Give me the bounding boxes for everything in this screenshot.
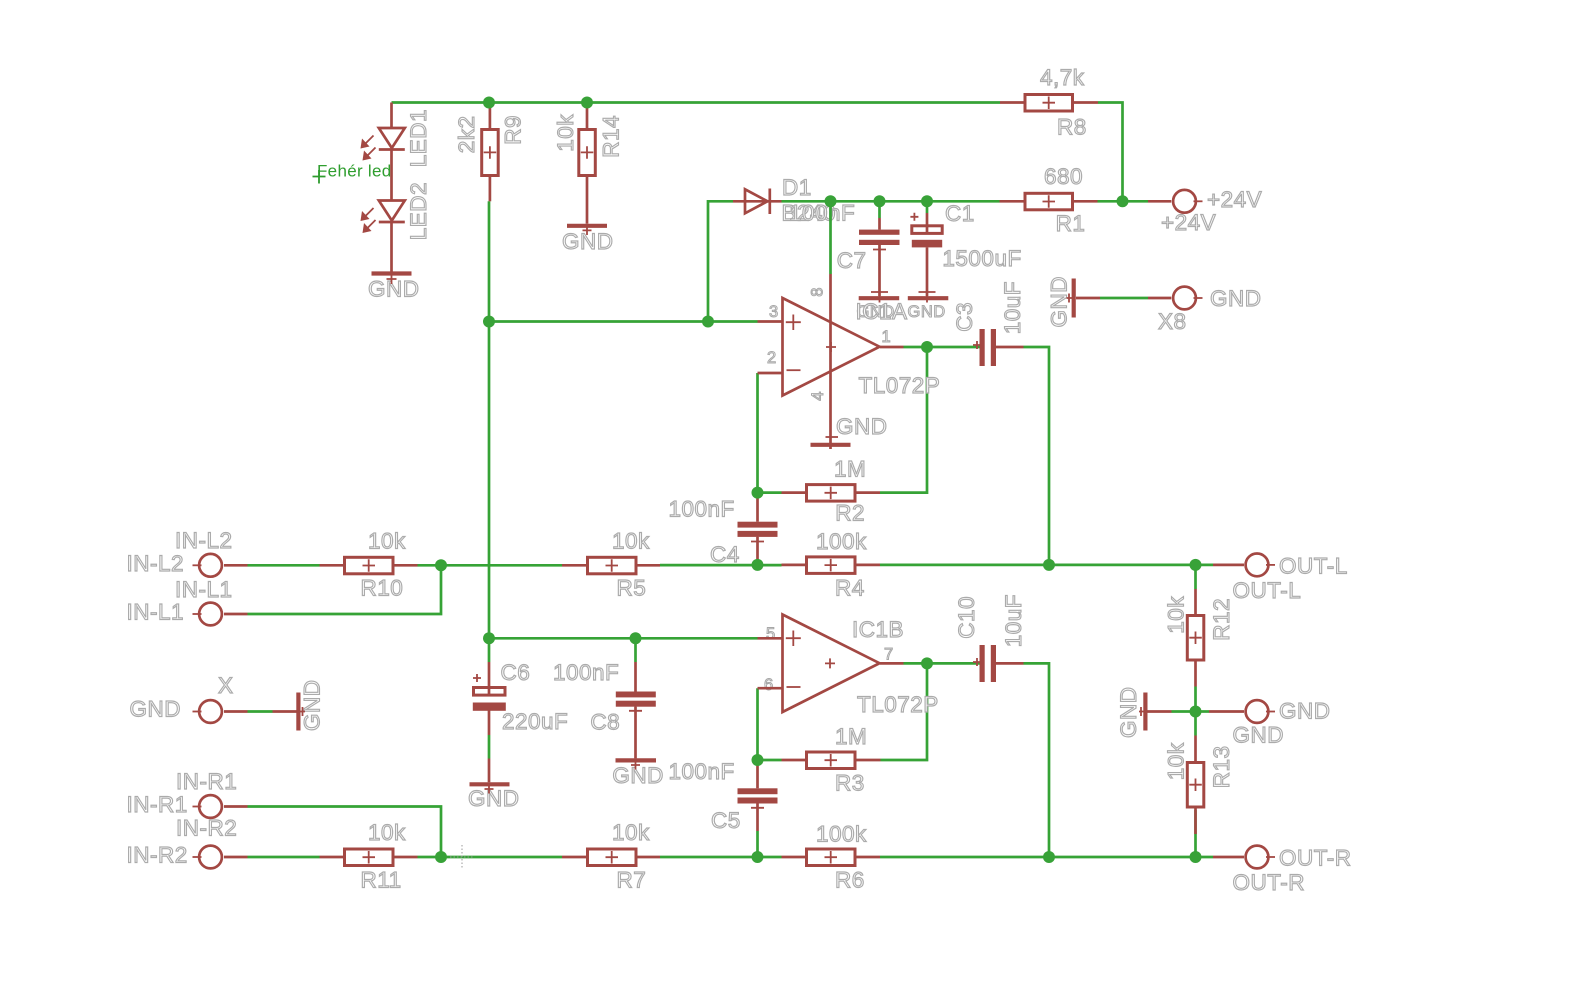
ground under R14 (562, 225, 614, 254)
svg-text:C3: C3 (952, 302, 977, 332)
svg-text:GND: GND (300, 680, 325, 732)
junction output A (921, 341, 933, 353)
wire: R2 left link (758, 491, 782, 494)
svg-text:220uF: 220uF (502, 709, 568, 734)
svg-text:IN-L2: IN-L2 (127, 551, 185, 576)
svg-text:IN-R2: IN-R2 (127, 843, 188, 868)
capacitor C3 10uF output A (952, 281, 1025, 366)
svg-text:C5: C5 (711, 808, 741, 833)
wire: C5 bottom link (756, 831, 759, 857)
resistor R13 10k (1164, 736, 1235, 835)
wire: R1 right to +24V pad (1098, 200, 1149, 203)
wire: L row junction to R5 (441, 564, 562, 567)
svg-text:IN-L1: IN-L1 (175, 577, 233, 602)
svg-text:GND: GND (612, 763, 664, 788)
junction D1 row at pin8 (825, 195, 837, 207)
pad IN-R1 (127, 769, 248, 818)
capacitor C6 220uF (473, 660, 569, 735)
wire: R13 top link (1194, 712, 1197, 736)
wire: R10 right to junction (418, 564, 442, 567)
svg-text:GND: GND (368, 277, 420, 302)
svg-text:IC1A: IC1A (856, 299, 908, 324)
junction R3 left (752, 754, 764, 766)
svg-text:R13: R13 (1209, 746, 1234, 789)
svg-text:LED2: LED2 (406, 182, 431, 240)
svg-text:OUT-R: OUT-R (1233, 870, 1306, 895)
svg-text:GND: GND (1210, 286, 1262, 311)
wire: R13 bottom link (1194, 810, 1197, 857)
wire: R4 right to OUT-L pad (880, 564, 1213, 567)
junction L row at C4 (752, 559, 764, 571)
wire: R row junction to R7 (441, 856, 562, 859)
svg-text:100nF: 100nF (669, 759, 735, 784)
green note Feher led (313, 162, 392, 184)
wire: R12 top link (1194, 565, 1197, 589)
pad OUT-L (1213, 554, 1348, 604)
resistor R10 10k (320, 528, 418, 600)
wire: IN-R2 pad to R11 (248, 856, 320, 859)
wire: R3 right up to output B (881, 663, 928, 760)
pad OUT-R (1213, 846, 1352, 896)
svg-text:1M: 1M (834, 457, 866, 482)
wire: C10 right down to OUT-R row (1024, 663, 1050, 857)
junction output B (921, 657, 933, 669)
wire: op-amp A pin2 feedback drop (756, 373, 759, 493)
wire: IN-L2 pad to R10 (248, 564, 320, 567)
wire: D1 row horizontal (cathode to R1 left) (782, 200, 1000, 203)
wire: R5 right to R4 left (660, 564, 782, 567)
wire: op-amp B pin6 drop (756, 688, 759, 760)
ground under C8 (612, 760, 664, 789)
wire: R8 right to +24V node corner (1098, 103, 1123, 202)
svg-text:6: 6 (764, 676, 773, 694)
svg-text:10uF: 10uF (1000, 281, 1025, 334)
svg-text:1M: 1M (835, 724, 867, 749)
svg-text:10k: 10k (1164, 596, 1189, 634)
svg-text:R6: R6 (835, 867, 865, 892)
svg-text:R10: R10 (361, 575, 404, 600)
svg-text:R9: R9 (501, 115, 526, 145)
wire: IN-R1 pad to junction column (248, 807, 442, 858)
svg-text:100nF: 100nF (789, 201, 855, 226)
wire: X pad to GND symbol (248, 710, 273, 713)
svg-text:R14: R14 (599, 115, 624, 158)
junction pin3 row at D1 drop (702, 316, 714, 328)
junction pin3 row at bias rail (483, 316, 495, 328)
svg-text:R8: R8 (1057, 115, 1087, 140)
wire: right GND row to symbol (1172, 710, 1196, 713)
op-amp IC1B TL072P (758, 615, 939, 718)
wire: R3 left link (758, 759, 782, 762)
svg-text:R1: R1 (1056, 211, 1086, 236)
junction top wire at R9 (483, 97, 495, 109)
svg-text:R4: R4 (835, 575, 865, 600)
svg-text:GND: GND (1279, 699, 1331, 724)
op-amp IC1A TL072P (758, 274, 941, 449)
resistor R3 1M (782, 724, 881, 796)
ground under C1 (908, 286, 949, 321)
resistor R5 10k (562, 528, 660, 600)
svg-text:R5: R5 (617, 575, 647, 600)
svg-text:1500uF: 1500uF (942, 246, 1021, 271)
svg-text:GND: GND (1116, 687, 1141, 739)
junction R row at C5 (752, 851, 764, 863)
svg-text:C10: C10 (954, 596, 979, 639)
ground symbol right divider (1116, 687, 1172, 739)
capacitor C7 100nF (837, 218, 900, 296)
svg-text:10k: 10k (368, 528, 406, 553)
wire: right GND row to pad (1196, 710, 1210, 713)
svg-text:10k: 10k (612, 528, 650, 553)
wire: pin5 bias row (489, 637, 758, 640)
svg-text:OUT-L: OUT-L (1279, 554, 1348, 579)
wire: X8 pad to GND symbol (1100, 297, 1148, 300)
junction right GND row (1190, 706, 1202, 718)
svg-text:10k: 10k (553, 114, 578, 152)
svg-text:3: 3 (769, 303, 778, 321)
wire: op-amp A pin8 supply drop (829, 201, 832, 274)
svg-text:OUT-R: OUT-R (1279, 846, 1352, 871)
resistor R14 10k (553, 103, 624, 224)
svg-text:2: 2 (767, 349, 776, 367)
svg-text:IN-R1: IN-R1 (176, 769, 237, 794)
capacitor C4 100nF (669, 493, 778, 567)
svg-text:R3: R3 (835, 771, 865, 796)
wire: output A to C3 (904, 346, 980, 349)
resistor R9 2k2 (454, 103, 526, 202)
LED1 with emission arrows (361, 103, 432, 201)
svg-text:C7: C7 (837, 248, 867, 273)
pad GND right (1209, 699, 1331, 748)
svg-text:IC1B: IC1B (852, 617, 904, 642)
junction R row at R13 (1190, 851, 1202, 863)
svg-text:X: X (218, 673, 234, 698)
svg-text:LED1: LED1 (406, 109, 431, 167)
svg-text:D1: D1 (782, 175, 812, 200)
pad IN-L1 (127, 577, 248, 625)
junction +24V node (1117, 195, 1129, 207)
wire: R6 right to OUT-R pad (880, 856, 1213, 859)
resistor R1 680 (1000, 164, 1098, 236)
svg-text:GND: GND (836, 414, 888, 439)
wire: R11 right to junction (418, 856, 442, 859)
svg-text:8: 8 (809, 288, 827, 297)
capacitor C8 100nF (553, 660, 656, 758)
svg-text:R2: R2 (835, 501, 865, 526)
capacitor C5 100nF (669, 759, 778, 833)
svg-text:10uF: 10uF (1001, 594, 1026, 647)
svg-text:7: 7 (884, 646, 893, 664)
svg-text:2k2: 2k2 (454, 116, 479, 154)
wire: bias rail vertical (R9 bottom to C6) (488, 201, 491, 662)
svg-text:GND: GND (1233, 723, 1285, 748)
pad X8 GND (1148, 286, 1262, 334)
diode D1 labels (name D1, value B240) (782, 175, 837, 226)
svg-text:5: 5 (766, 625, 775, 643)
pad X GND left (130, 673, 248, 723)
resistor R7 10k (562, 820, 660, 892)
svg-text:R11: R11 (361, 867, 402, 892)
svg-text:GND: GND (130, 697, 182, 722)
wire: output B to C10 (904, 662, 980, 665)
junction D1 row at C1 (921, 195, 933, 207)
wire: R2 right up to output A (880, 347, 927, 493)
svg-text:R7: R7 (617, 867, 647, 892)
svg-text:R12: R12 (1209, 598, 1234, 641)
svg-text:+24V: +24V (1161, 210, 1216, 235)
svg-text:TL072P: TL072P (859, 373, 941, 398)
svg-text:C4: C4 (710, 542, 740, 567)
svg-text:GND: GND (468, 786, 520, 811)
wire: pin3 row horizontal from bias rail (489, 320, 758, 323)
svg-text:OUT-L: OUT-L (1233, 578, 1302, 603)
resistor R4 100k (782, 529, 881, 600)
svg-text:100k: 100k (816, 822, 867, 847)
wire: D1 anode drop to op-amp pin3 row (708, 201, 733, 321)
pad +24V (1148, 187, 1262, 235)
svg-text:10k: 10k (612, 820, 650, 845)
svg-text:10k: 10k (368, 820, 406, 845)
junction pin5 row at bias rail (483, 632, 495, 644)
capacitor C10 10uF output B (954, 594, 1026, 682)
pad IN-L2 (127, 528, 248, 577)
ground symbol X8 (1047, 276, 1101, 328)
svg-text:4: 4 (809, 392, 827, 401)
wire: C3 right down to OUT-L row (1024, 347, 1050, 565)
svg-text:1: 1 (882, 328, 891, 346)
svg-text:IN-L2: IN-L2 (175, 528, 233, 553)
svg-text:IN-R1: IN-R1 (127, 792, 188, 817)
svg-text:C8: C8 (590, 710, 620, 735)
ground under op-amp A pin4 (811, 414, 888, 445)
junction R row at IN-R1 (435, 851, 447, 863)
wire: R12 bottom link (1194, 687, 1197, 712)
wire: R7 right to R6 left (660, 856, 782, 859)
ground under C7 (857, 286, 900, 321)
svg-text:C1: C1 (945, 201, 975, 226)
svg-text:X8: X8 (1158, 309, 1187, 334)
wire: IN-L1 pad to junction column (248, 565, 442, 614)
diode D1 B240 (733, 189, 782, 215)
wire: C8 top connection (634, 638, 637, 662)
wire: C6 links (488, 735, 491, 759)
svg-text:IN-L1: IN-L1 (127, 600, 185, 625)
junction R2 left (752, 487, 764, 499)
svg-text:C6: C6 (501, 660, 531, 685)
wire: top horizontal rail from LED column to R8 (392, 101, 1001, 104)
junction top wire at R14 (581, 97, 593, 109)
svg-text:680: 680 (1044, 164, 1083, 189)
wire: C7 top connection (878, 201, 881, 218)
LED2 with emission arrows (361, 182, 432, 274)
svg-text:IN-R2: IN-R2 (176, 816, 237, 841)
cursor crosshair mark (450, 845, 474, 869)
svg-text:GND: GND (1047, 276, 1072, 328)
svg-text:100k: 100k (816, 529, 867, 554)
svg-text:Fehér led: Fehér led (317, 162, 392, 181)
svg-text:+24V: +24V (1207, 187, 1262, 212)
svg-text:10k: 10k (1164, 742, 1189, 780)
svg-text:100nF: 100nF (553, 660, 619, 685)
junction L row at IN-L1 (435, 559, 447, 571)
junction D1 row at C7 (874, 195, 886, 207)
junction pin5 row at C8 (630, 632, 642, 644)
svg-text:4,7k: 4,7k (1040, 65, 1085, 90)
svg-text:TL072P: TL072P (857, 692, 939, 717)
resistor R12 10k (1164, 589, 1235, 687)
svg-text:100nF: 100nF (669, 497, 735, 522)
resistor R6 100k (782, 822, 881, 893)
junction L row at R12 (1190, 559, 1202, 571)
resistor R11 10k (320, 820, 418, 892)
ground under LED chain (368, 273, 420, 302)
junction L row at C3 drop (1043, 559, 1055, 571)
junction R row at C10 drop (1043, 851, 1055, 863)
resistor R2 1M (782, 457, 881, 526)
ground symbol at X pad (273, 680, 325, 732)
capacitor C1 1500uF (910, 201, 1021, 296)
pad IN-R2 (127, 816, 248, 869)
ground under C6 (468, 759, 520, 812)
resistor R8 4,7k (1000, 65, 1098, 140)
svg-text:GND: GND (908, 303, 946, 321)
wire: C1 top connection (926, 201, 929, 213)
